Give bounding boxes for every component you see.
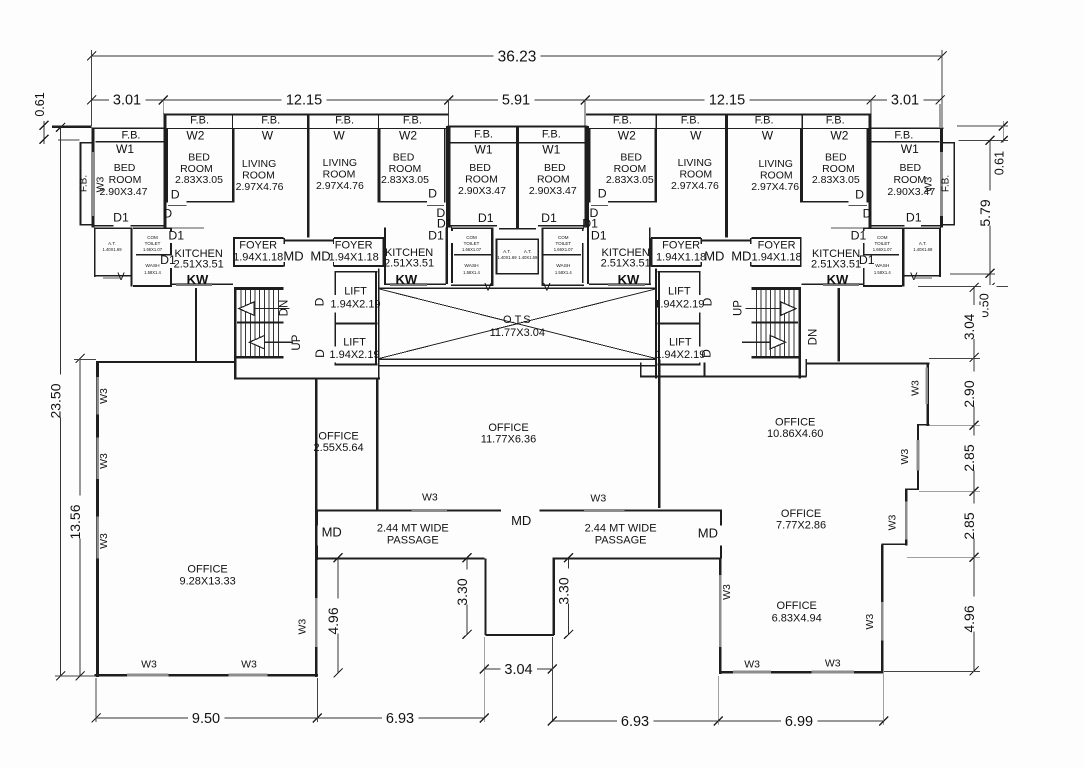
svg-text:5.91: 5.91 bbox=[502, 93, 530, 109]
svg-text:6.83X4.94: 6.83X4.94 bbox=[772, 613, 822, 625]
svg-text:BED: BED bbox=[469, 162, 491, 174]
svg-text:2.97X4.76: 2.97X4.76 bbox=[671, 180, 719, 192]
lift shafts right bbox=[657, 271, 700, 273]
svg-text:ROOM: ROOM bbox=[893, 174, 926, 186]
core block bottom wall right bbox=[640, 376, 807, 378]
svg-text:FOYER: FOYER bbox=[758, 240, 796, 252]
dimension 2.90 right bbox=[973, 358, 975, 426]
O.T.S. courtyard outline bbox=[378, 287, 656, 289]
svg-text:MD: MD bbox=[511, 513, 531, 528]
svg-text:LIFT: LIFT bbox=[343, 337, 366, 349]
svg-text:1.58X1.4: 1.58X1.4 bbox=[463, 270, 480, 275]
svg-text:1.94X1.18: 1.94X1.18 bbox=[329, 252, 379, 264]
svg-text:1.94X2.19: 1.94X2.19 bbox=[329, 349, 379, 361]
wall between big office and office 2.55 bbox=[315, 378, 318, 677]
svg-text:2.44 MT WIDE: 2.44 MT WIDE bbox=[377, 522, 449, 534]
F.B. balcony outer right bbox=[954, 142, 956, 225]
svg-text:W3: W3 bbox=[297, 619, 309, 635]
O.T.S. side wall right bbox=[655, 269, 657, 379]
F.B. band outer section left bbox=[96, 141, 164, 142]
svg-text:DN: DN bbox=[279, 300, 291, 317]
svg-text:23.50: 23.50 bbox=[48, 383, 64, 418]
svg-text:W1: W1 bbox=[901, 142, 919, 156]
wall between office 2.55 and office 11.77 bbox=[376, 378, 378, 511]
svg-text:6.93: 6.93 bbox=[386, 711, 414, 727]
svg-text:1.66X1.07: 1.66X1.07 bbox=[873, 247, 893, 252]
svg-text:2.90X3.47: 2.90X3.47 bbox=[100, 186, 148, 198]
svg-text:D: D bbox=[171, 188, 180, 202]
svg-text:FOYER: FOYER bbox=[662, 240, 700, 252]
svg-text:1.94X1.18: 1.94X1.18 bbox=[752, 252, 802, 264]
central bedroom W1 right bbox=[584, 127, 586, 227]
svg-text:2.85: 2.85 bbox=[961, 444, 977, 471]
svg-text:D1: D1 bbox=[541, 211, 557, 225]
svg-text:TOILET: TOILET bbox=[555, 241, 571, 246]
svg-text:F.B.: F.B. bbox=[474, 129, 493, 141]
dimension 6.99 bottom bbox=[718, 720, 884, 722]
window W3 bedroom outer right bbox=[940, 152, 943, 216]
svg-text:2.90X3.47: 2.90X3.47 bbox=[458, 185, 506, 197]
central section top+FB left bbox=[447, 126, 518, 128]
svg-text:A.T.: A.T. bbox=[919, 241, 927, 246]
svg-text:F.B.: F.B. bbox=[755, 115, 774, 127]
com toilet apt2 left bbox=[451, 227, 493, 229]
bedroom outer bottom wall left bbox=[94, 225, 114, 227]
dimension 13.56 left bbox=[79, 359, 81, 677]
svg-text:PASSAGE: PASSAGE bbox=[595, 535, 647, 547]
svg-text:F.B.: F.B. bbox=[894, 130, 913, 142]
svg-text:1.94X2.19: 1.94X2.19 bbox=[654, 298, 704, 310]
svg-text:2.44 MT WIDE: 2.44 MT WIDE bbox=[585, 522, 657, 534]
big office windows W3 bottom bbox=[127, 674, 168, 677]
F.B. band 12.15 section right bbox=[586, 114, 871, 116]
svg-text:W3: W3 bbox=[825, 657, 841, 669]
svg-text:2.90X3.47: 2.90X3.47 bbox=[887, 186, 935, 198]
svg-text:W2: W2 bbox=[618, 129, 636, 143]
svg-text:OFFICE: OFFICE bbox=[318, 431, 358, 443]
svg-text:3.30: 3.30 bbox=[556, 577, 572, 604]
step 1 bbox=[917, 424, 930, 426]
svg-text:3.04: 3.04 bbox=[962, 313, 977, 340]
dimension 2.85 right upper bbox=[973, 425, 975, 491]
step 2 bbox=[905, 488, 919, 490]
svg-text:1.40X1.69: 1.40X1.69 bbox=[913, 247, 933, 252]
svg-text:A.T.: A.T. bbox=[108, 241, 116, 246]
svg-text:ROOM: ROOM bbox=[537, 174, 570, 186]
office 6.83 windows bottom bbox=[733, 671, 771, 674]
kitchen apt1 right bbox=[831, 228, 863, 229]
bedroom W2 second right bbox=[654, 129, 657, 203]
svg-text:1.94X2.19: 1.94X2.19 bbox=[655, 349, 705, 361]
svg-text:LIFT: LIFT bbox=[668, 286, 691, 298]
svg-text:F.B.: F.B. bbox=[613, 115, 632, 127]
svg-text:ROOM: ROOM bbox=[323, 169, 356, 181]
dimension 0.61 right bbox=[1002, 121, 1004, 145]
setback wall right bbox=[838, 288, 840, 362]
svg-text:D: D bbox=[312, 297, 326, 306]
svg-text:F.B.: F.B. bbox=[122, 130, 141, 142]
svg-text:D1: D1 bbox=[591, 229, 607, 243]
svg-text:LIFT: LIFT bbox=[669, 337, 692, 349]
passage bottom wall right bbox=[552, 557, 719, 559]
svg-text:ROOM: ROOM bbox=[679, 169, 712, 181]
svg-text:4.96: 4.96 bbox=[961, 605, 977, 632]
svg-text:D: D bbox=[598, 187, 607, 201]
svg-text:2.90: 2.90 bbox=[961, 380, 977, 407]
dimension 36.23 overall top bbox=[92, 55, 943, 57]
section wall 12.15/5.91 left bbox=[446, 126, 449, 228]
svg-text:W3: W3 bbox=[241, 659, 257, 671]
party wall between apartments right bbox=[725, 114, 728, 238]
svg-text:W3: W3 bbox=[141, 659, 157, 671]
svg-text:UP: UP bbox=[733, 300, 745, 316]
window W3 middle wall bbox=[315, 598, 318, 647]
svg-text:W1: W1 bbox=[116, 142, 134, 156]
svg-text:W2: W2 bbox=[399, 129, 417, 143]
svg-text:2.83X3.05: 2.83X3.05 bbox=[381, 174, 429, 186]
svg-text:OFFICE: OFFICE bbox=[187, 564, 227, 576]
svg-text:LIVING: LIVING bbox=[678, 157, 712, 169]
office 6.83 bottom wall bbox=[719, 671, 884, 673]
svg-text:36.23: 36.23 bbox=[498, 49, 537, 66]
svg-text:D1: D1 bbox=[906, 211, 922, 225]
svg-text:COM: COM bbox=[877, 235, 888, 240]
svg-text:6.93: 6.93 bbox=[621, 714, 649, 730]
central bedroom W1 left bbox=[449, 127, 451, 227]
svg-text:F.B.: F.B. bbox=[261, 115, 280, 127]
kitchen apt2 right bbox=[649, 228, 651, 284]
O.T.S. side wall left bbox=[378, 269, 380, 379]
svg-text:F.B.: F.B. bbox=[403, 115, 422, 127]
passage right cap bbox=[720, 510, 722, 525]
core block bottom wall left bbox=[234, 378, 380, 380]
svg-text:OFFICE: OFFICE bbox=[775, 417, 815, 429]
wash apt2 right bbox=[542, 284, 584, 286]
vestibule top wall right bbox=[701, 240, 752, 242]
vestibule top wall left bbox=[284, 240, 335, 242]
svg-text:V: V bbox=[910, 271, 918, 283]
courtyard bottom walls bbox=[486, 634, 555, 636]
dimension 6.93 bottom left bbox=[317, 717, 484, 719]
svg-text:3.01: 3.01 bbox=[113, 93, 141, 109]
step 3 bbox=[882, 544, 908, 546]
svg-text:ROOM: ROOM bbox=[465, 174, 498, 186]
svg-text:BED: BED bbox=[544, 162, 566, 174]
foyer apt1 left bbox=[233, 237, 283, 239]
svg-text:D1: D1 bbox=[160, 253, 176, 267]
svg-text:2.83X3.05: 2.83X3.05 bbox=[812, 174, 860, 186]
svg-text:2.51X3.51: 2.51X3.51 bbox=[811, 259, 861, 271]
section wall 3.01/12.15 right bbox=[868, 114, 871, 228]
svg-text:KW: KW bbox=[187, 272, 209, 287]
svg-text:D1: D1 bbox=[113, 211, 129, 225]
svg-text:D1: D1 bbox=[168, 229, 184, 243]
svg-text:W2: W2 bbox=[186, 129, 204, 143]
svg-text:WASH: WASH bbox=[556, 263, 571, 269]
lift shafts left bbox=[334, 271, 377, 273]
svg-text:5.79: 5.79 bbox=[977, 199, 993, 226]
svg-text:D: D bbox=[863, 207, 872, 221]
svg-text:MD: MD bbox=[310, 249, 330, 264]
outer 3.01 section top wall left bbox=[92, 127, 164, 129]
svg-text:A.T.: A.T. bbox=[524, 249, 532, 254]
svg-text:11.77X3.04: 11.77X3.04 bbox=[490, 327, 545, 339]
svg-text:D: D bbox=[313, 349, 327, 358]
passage top wall bbox=[316, 509, 501, 511]
office 11.77 top wall bbox=[378, 365, 656, 367]
party wall between apartments left bbox=[307, 114, 310, 238]
svg-text:W3: W3 bbox=[886, 514, 898, 530]
svg-text:OFFICE: OFFICE bbox=[488, 422, 528, 434]
svg-text:ROOM: ROOM bbox=[242, 170, 275, 182]
svg-text:1.66X1.07: 1.66X1.07 bbox=[143, 247, 163, 252]
svg-text:W2: W2 bbox=[830, 129, 848, 143]
svg-text:MD: MD bbox=[731, 249, 751, 264]
svg-text:D1: D1 bbox=[582, 217, 598, 231]
big office top wall bbox=[96, 361, 235, 363]
dimension 3.30 mid-left bbox=[466, 558, 468, 635]
svg-text:LIVING: LIVING bbox=[323, 157, 357, 169]
svg-text:DN: DN bbox=[807, 329, 819, 346]
svg-text:1.94X1.18: 1.94X1.18 bbox=[656, 252, 706, 264]
stepped east wall lower bbox=[905, 489, 907, 545]
svg-text:D1: D1 bbox=[437, 217, 453, 231]
svg-text:12.15: 12.15 bbox=[709, 93, 745, 109]
svg-text:BED: BED bbox=[188, 152, 210, 164]
svg-text:1.66X1.07: 1.66X1.07 bbox=[554, 247, 574, 252]
svg-text:W3: W3 bbox=[899, 449, 911, 465]
bedroom W2 second left bbox=[378, 129, 381, 203]
svg-text:D: D bbox=[700, 349, 714, 358]
svg-text:MD: MD bbox=[698, 526, 718, 541]
svg-text:COM: COM bbox=[147, 235, 158, 240]
office 6.83 right wall bbox=[881, 544, 884, 673]
svg-text:2.97X4.76: 2.97X4.76 bbox=[236, 181, 284, 193]
svg-text:D: D bbox=[701, 297, 715, 306]
svg-text:0.61: 0.61 bbox=[33, 92, 47, 116]
svg-text:W3: W3 bbox=[98, 453, 110, 469]
wall between offices 11.77 and 10.86 bbox=[658, 359, 661, 508]
wash apt1 left bbox=[133, 285, 172, 287]
dimension 0.50 right bbox=[989, 273, 991, 287]
com toilet apt1 right bbox=[863, 227, 902, 229]
svg-text:1.66X1.07: 1.66X1.07 bbox=[462, 247, 482, 252]
O.T.S. diagonal cross bbox=[379, 289, 656, 359]
svg-text:W3: W3 bbox=[744, 659, 760, 671]
svg-text:BED: BED bbox=[825, 152, 847, 164]
svg-text:F.B.: F.B. bbox=[190, 115, 209, 127]
svg-text:W3: W3 bbox=[721, 584, 733, 600]
svg-text:COM: COM bbox=[558, 235, 569, 240]
svg-text:WASH: WASH bbox=[464, 263, 479, 269]
svg-text:W3: W3 bbox=[864, 614, 876, 630]
com toilet apt1 left bbox=[133, 227, 172, 229]
dimension 2.85 right lower bbox=[973, 491, 975, 557]
svg-text:10.86X4.60: 10.86X4.60 bbox=[767, 428, 823, 440]
section wall 12.15/5.91 right bbox=[586, 126, 589, 228]
office 6.83 left wall bbox=[719, 557, 722, 674]
dimension 6.93 bottom right bbox=[552, 720, 718, 722]
svg-text:1.94X1.18: 1.94X1.18 bbox=[233, 252, 283, 264]
svg-text:UP: UP bbox=[291, 334, 303, 350]
svg-text:F.B.: F.B. bbox=[826, 115, 845, 127]
big office bottom wall bbox=[95, 674, 318, 676]
svg-text:3.30: 3.30 bbox=[454, 578, 470, 605]
passage windows W3 bbox=[412, 509, 448, 512]
svg-text:F.B.: F.B. bbox=[79, 175, 90, 192]
svg-text:FOYER: FOYER bbox=[239, 240, 277, 252]
svg-text:W3: W3 bbox=[590, 493, 606, 505]
svg-text:D1: D1 bbox=[859, 253, 875, 267]
foyer apt2 right bbox=[651, 237, 701, 239]
svg-text:KW: KW bbox=[395, 272, 417, 287]
svg-text:WASH: WASH bbox=[145, 263, 160, 269]
svg-text:D: D bbox=[163, 207, 172, 221]
small rooms apt1 left bbox=[94, 227, 131, 229]
svg-text:LIVING: LIVING bbox=[758, 158, 792, 170]
passage bottom wall left bbox=[316, 557, 484, 559]
stepped east wall mid bbox=[917, 425, 919, 490]
big office windows W3 left bbox=[96, 377, 99, 415]
svg-text:BED: BED bbox=[620, 152, 642, 164]
F.B. balcony outer left bbox=[80, 142, 82, 225]
bedroom outer bottom wall right bbox=[921, 225, 941, 227]
svg-text:FOYER: FOYER bbox=[335, 240, 373, 252]
svg-text:2.90X3.47: 2.90X3.47 bbox=[529, 185, 577, 197]
svg-text:1.94X2.19: 1.94X2.19 bbox=[330, 298, 380, 310]
svg-text:9.28X13.33: 9.28X13.33 bbox=[179, 576, 235, 588]
svg-text:LIFT: LIFT bbox=[344, 286, 367, 298]
central party wall right bbox=[516, 127, 518, 229]
passage left cap bbox=[316, 510, 318, 525]
svg-text:2.51X3.51: 2.51X3.51 bbox=[174, 259, 224, 271]
svg-text:1.58X1.4: 1.58X1.4 bbox=[874, 270, 891, 275]
section wall 3.01/12.15 left bbox=[163, 114, 166, 228]
svg-text:3.01: 3.01 bbox=[891, 93, 919, 109]
svg-text:F.B.: F.B. bbox=[335, 115, 354, 127]
svg-text:MD: MD bbox=[322, 525, 342, 540]
dimension 5.79 right bbox=[989, 140, 991, 273]
svg-text:2.83X3.05: 2.83X3.05 bbox=[175, 174, 223, 186]
dimension 0.61 left bbox=[43, 121, 45, 144]
svg-text:7.77X2.86: 7.77X2.86 bbox=[776, 519, 826, 531]
svg-text:ROOM: ROOM bbox=[109, 174, 142, 186]
svg-text:9.50: 9.50 bbox=[192, 711, 220, 727]
outer left wall right bbox=[940, 128, 943, 228]
svg-text:KW: KW bbox=[618, 272, 640, 287]
svg-text:TOILET: TOILET bbox=[145, 241, 161, 246]
bedroom W2 first left bbox=[167, 129, 169, 203]
svg-text:F.B.: F.B. bbox=[940, 175, 951, 192]
svg-text:W3: W3 bbox=[909, 380, 921, 396]
svg-text:ROOM: ROOM bbox=[760, 170, 793, 182]
bedroom W2 first right bbox=[867, 129, 869, 203]
svg-text:W: W bbox=[690, 129, 702, 143]
svg-text:LIVING: LIVING bbox=[242, 158, 276, 170]
svg-text:W3: W3 bbox=[98, 533, 110, 549]
dimension row 3.01/12.15/5.91/12.15/3.01 bbox=[92, 99, 941, 101]
window W3 bedroom outer left bbox=[92, 152, 95, 216]
svg-text:1.58X1.4: 1.58X1.4 bbox=[144, 270, 161, 275]
outer left wall left bbox=[92, 128, 95, 228]
com toilet apt2 right bbox=[542, 227, 584, 229]
wash apt2 left bbox=[451, 284, 493, 286]
svg-text:2.85: 2.85 bbox=[961, 512, 977, 539]
stepped east wall upper bbox=[926, 362, 929, 426]
dimension 3.04 courtyard bbox=[484, 668, 552, 670]
central section top+FB right bbox=[517, 126, 588, 128]
svg-text:11.77X6.36: 11.77X6.36 bbox=[481, 434, 536, 446]
svg-text:W: W bbox=[762, 129, 774, 143]
stairs block right bbox=[798, 288, 800, 379]
svg-text:1.40X1.69: 1.40X1.69 bbox=[518, 255, 538, 260]
office 10.86 top walls bbox=[704, 363, 706, 377]
middle-left office right wall bbox=[484, 558, 486, 635]
svg-text:F.B.: F.B. bbox=[681, 115, 700, 127]
svg-text:V: V bbox=[117, 271, 125, 283]
svg-text:W3: W3 bbox=[422, 492, 438, 504]
svg-text:BED: BED bbox=[114, 162, 136, 174]
setback wall left bbox=[195, 288, 197, 362]
dimension 4.96 mid-left bbox=[337, 558, 339, 673]
svg-text:TOILET: TOILET bbox=[464, 241, 480, 246]
svg-text:BED: BED bbox=[393, 152, 415, 164]
svg-text:O.T.S: O.T.S bbox=[503, 314, 531, 326]
F.B. band outer section right bbox=[872, 141, 940, 142]
svg-text:2.83X3.05: 2.83X3.05 bbox=[606, 174, 654, 186]
stairs block left bbox=[234, 288, 236, 379]
wash apt1 right bbox=[863, 285, 902, 287]
svg-text:WASH: WASH bbox=[875, 263, 890, 269]
dimension 9.50 bottom bbox=[96, 717, 317, 719]
svg-text:1.58X1.4: 1.58X1.4 bbox=[555, 270, 572, 275]
outer 3.01 section top wall right bbox=[872, 127, 944, 129]
big office left wall bbox=[96, 361, 99, 677]
svg-text:6.99: 6.99 bbox=[785, 714, 813, 730]
dimension 23.50 left bbox=[60, 128, 62, 677]
central party wall left bbox=[517, 127, 519, 229]
F.B. band 12.15 section left bbox=[163, 114, 448, 116]
svg-text:D: D bbox=[855, 188, 864, 202]
svg-text:1.40X1.69: 1.40X1.69 bbox=[497, 255, 517, 260]
svg-text:D: D bbox=[428, 187, 437, 201]
svg-text:W3: W3 bbox=[98, 388, 110, 404]
stair arrows right bbox=[781, 302, 796, 315]
svg-text:2.97X4.76: 2.97X4.76 bbox=[316, 180, 364, 192]
svg-text:1.40X1.69: 1.40X1.69 bbox=[102, 247, 122, 252]
svg-text:COM: COM bbox=[466, 235, 477, 240]
svg-text:W: W bbox=[333, 129, 345, 143]
svg-text:0.61: 0.61 bbox=[992, 151, 1006, 175]
svg-text:OFFICE: OFFICE bbox=[777, 600, 817, 612]
dimension 3.30 mid-right bbox=[568, 558, 570, 635]
svg-text:2.55X5.64: 2.55X5.64 bbox=[314, 442, 364, 454]
foyer apt2 left bbox=[334, 237, 384, 239]
kitchen apt2 left bbox=[384, 228, 386, 284]
svg-text:BED: BED bbox=[900, 162, 922, 174]
svg-text:W1: W1 bbox=[542, 143, 560, 157]
dimension 4.96 right bbox=[973, 557, 975, 671]
a.t. apt2 left bbox=[496, 239, 518, 241]
svg-text:3.04: 3.04 bbox=[504, 662, 532, 678]
svg-text:4.96: 4.96 bbox=[325, 607, 341, 634]
svg-text:MD: MD bbox=[704, 249, 724, 264]
svg-text:2.97X4.76: 2.97X4.76 bbox=[751, 181, 799, 193]
stair arrows left bbox=[239, 302, 254, 315]
a.t. apt2 right bbox=[517, 239, 539, 241]
svg-text:D1: D1 bbox=[851, 229, 867, 243]
svg-text:W: W bbox=[262, 129, 274, 143]
